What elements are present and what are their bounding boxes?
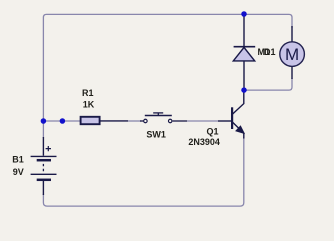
switch SW1 contact bar	[145, 115, 172, 117]
svg-text:B1: B1	[12, 154, 24, 164]
wire: resistor R1 to switch SW1	[128, 120, 141, 122]
switch SW1 actuator stem	[157, 113, 159, 116]
motor M1 top pin	[291, 26, 293, 42]
transistor Q1 collector	[232, 90, 244, 115]
svg-text:Q1: Q1	[207, 127, 219, 137]
junction node resistor branch	[60, 118, 66, 124]
diode D1 vertical lead	[243, 14, 245, 90]
battery B1 bottom pin	[42, 181, 44, 195]
svg-text:1K: 1K	[83, 99, 95, 109]
battery B1 plus sign	[46, 146, 51, 151]
junction node collector / diode anode / motor return	[241, 87, 247, 93]
battery B1 plate long bottom	[31, 173, 57, 175]
transistor Q1 base lead	[218, 120, 231, 122]
svg-text:2N3904: 2N3904	[188, 137, 220, 147]
switch SW1 left lead	[140, 120, 143, 122]
motor M1 body	[280, 42, 305, 67]
switch SW1 right terminal	[168, 119, 172, 123]
transistor Q1 emitter	[232, 122, 244, 139]
svg-text:R1: R1	[82, 88, 94, 98]
junction node battery / left rail	[41, 118, 47, 124]
battery B1 plate long top	[31, 155, 57, 157]
battery B1 plate short top	[37, 159, 51, 162]
battery B1 plate short bottom	[37, 179, 51, 182]
svg-text:SW1: SW1	[146, 130, 166, 140]
wire: top rail and left rail	[43, 14, 292, 121]
svg-text:M: M	[285, 45, 299, 64]
resistor R1 right lead	[100, 120, 128, 122]
switch SW1 right lead	[173, 120, 187, 122]
resistor R1 body	[81, 117, 100, 124]
battery B1 dashed cell link	[42, 164, 44, 172]
switch SW1 actuator cap	[153, 112, 163, 114]
svg-text:9V: 9V	[13, 167, 24, 177]
svg-text:D1: D1	[264, 47, 276, 57]
wire: battery top pin upper segment	[42, 121, 44, 138]
wire: battery+ node to resistor R1	[43, 120, 80, 122]
diode D1 cathode bar	[234, 46, 256, 48]
battery B1 top pin	[42, 137, 44, 156]
wire: emitter to bottom rail to battery minus	[43, 138, 243, 207]
transistor Q1 emitter arrow	[236, 126, 245, 134]
transistor Q1 base bar	[231, 107, 233, 129]
motor M1 bottom pin	[291, 66, 293, 79]
wire: switch SW1 to transistor base	[187, 120, 218, 122]
wire: motor bottom to diode anode node	[245, 78, 292, 90]
junction node top rail / diode cathode	[241, 11, 247, 17]
switch SW1 left terminal	[144, 119, 148, 123]
diode D1 triangle	[233, 47, 254, 61]
